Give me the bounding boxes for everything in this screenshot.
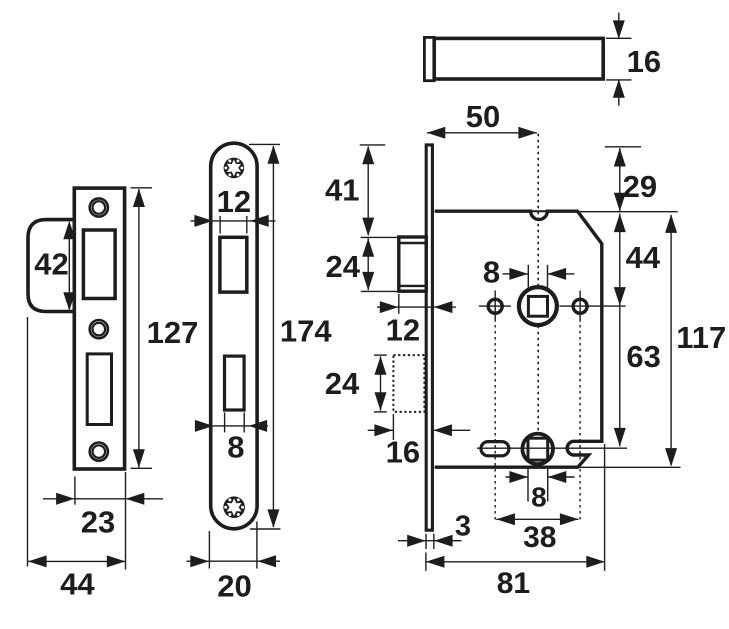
dim 24 latch bottom tick <box>361 290 397 292</box>
left fixing hole <box>488 299 502 313</box>
strike plate outline <box>74 188 124 469</box>
dim 12 latch arrow left <box>434 301 453 313</box>
dim 44 right extension <box>125 472 127 570</box>
hole centerline horizontal left <box>479 305 511 307</box>
dim 23 arrow right <box>56 493 75 505</box>
svg-text:16: 16 <box>386 434 420 469</box>
dim 3 tick right <box>433 534 435 549</box>
dim 16 bottom arrow right <box>374 424 393 436</box>
right hole centerline dotted <box>579 325 581 520</box>
dim 8 bottom arrow left <box>548 471 567 483</box>
dim 24 pocket bottom tick <box>374 411 387 413</box>
dim 8 arrow left <box>249 420 268 432</box>
bolt top-view body <box>434 38 603 79</box>
svg-text:50: 50 <box>466 99 500 134</box>
dim 24 latch line <box>367 238 369 290</box>
hole centerline horizontal right <box>560 305 626 307</box>
dim 8 spindle leader right <box>548 273 575 275</box>
dim 50 arrow left <box>427 127 446 139</box>
dim 127 top tick <box>131 187 153 189</box>
dim 127 arrow down <box>133 449 145 468</box>
dim 20 left extension <box>208 531 210 569</box>
dim 29 arrow up <box>614 148 626 167</box>
dim 38 arrow left <box>496 513 515 525</box>
strike plate bottom screw hole <box>90 443 108 461</box>
dim 23 arrow left <box>126 493 145 505</box>
svg-text:44: 44 <box>60 567 95 602</box>
dim 16 bottom arrow left <box>433 424 452 436</box>
dim 117 line <box>670 215 672 465</box>
dim 8 spindle tick left <box>527 265 529 291</box>
dim 16 top line lower <box>618 80 620 106</box>
case top extension line <box>580 211 678 213</box>
dim 3 arrow left <box>434 535 453 547</box>
dim 44 arrow right <box>107 555 126 567</box>
spindle follower circle <box>519 287 557 325</box>
strike plate lip (latch pocket) <box>28 220 73 312</box>
dim 44 line <box>28 560 125 562</box>
dim 8 spindle arrow right <box>509 268 528 280</box>
dim 42 line <box>68 222 70 310</box>
svg-text:41: 41 <box>325 173 359 208</box>
dim 174 line <box>272 146 274 527</box>
dim 23 line <box>43 498 163 500</box>
dim 63 line <box>619 307 621 447</box>
dim 41 arrow up <box>362 146 374 165</box>
dim 8 tick right <box>243 412 245 432</box>
strike plate latch cutout <box>83 230 115 299</box>
dim 24 pocket top tick <box>374 354 387 356</box>
dim 20 line <box>187 560 281 562</box>
latch bolt side view <box>399 237 426 291</box>
dim 16 top arrow down <box>613 20 625 39</box>
dim 16 bottom extension <box>392 414 394 440</box>
dim 12 tick right <box>246 216 248 234</box>
dim 12 latch extension <box>398 294 400 314</box>
svg-text:20: 20 <box>217 569 251 604</box>
dim 8 spindle leader left <box>503 273 528 275</box>
dim 174 bottom tick <box>250 528 281 530</box>
dim 24 latch arrow up <box>362 238 374 257</box>
dim 24 pocket line <box>380 356 382 410</box>
faceplate bottom torx screw <box>223 496 245 518</box>
wc follower circle <box>522 434 553 465</box>
oval slot left <box>481 442 509 456</box>
bottom centerline horizontal <box>477 447 627 449</box>
svg-text:81: 81 <box>497 567 530 600</box>
svg-text:44: 44 <box>626 240 661 275</box>
dim 42 arrow down <box>63 292 75 311</box>
dim 44 case line <box>619 214 621 306</box>
dim 44 case arrow up <box>614 214 626 233</box>
dim 12 arrow right <box>194 215 213 227</box>
dim 29 line <box>619 148 621 211</box>
dim 8 bottom tick left <box>527 468 529 502</box>
svg-text:174: 174 <box>280 314 332 349</box>
dotted deadbolt pocket <box>393 355 424 412</box>
dim 63 arrow down <box>614 428 626 447</box>
dim 8 line <box>201 425 268 427</box>
svg-text:29: 29 <box>623 169 657 204</box>
faceplate deadbolt cutout <box>225 356 245 410</box>
svg-text:24: 24 <box>326 249 361 284</box>
svg-text:8: 8 <box>483 255 500 290</box>
dim 81 right extension <box>604 444 606 571</box>
dim 12 tick left <box>219 216 221 234</box>
dim 8 arrow right <box>195 420 214 432</box>
svg-text:117: 117 <box>676 320 726 355</box>
strike plate middle screw hole <box>90 320 108 338</box>
dim 24 latch arrow down <box>362 272 374 291</box>
dim 38 arrow right <box>560 513 579 525</box>
dim 24 pocket arrow down <box>375 392 387 411</box>
latch bolt inner line top <box>399 242 426 244</box>
svg-text:38: 38 <box>523 521 556 554</box>
dim 8 tick left <box>224 412 226 432</box>
svg-text:16: 16 <box>627 44 661 79</box>
dim 29 top tick <box>605 146 641 148</box>
lock case outline <box>435 211 602 467</box>
dim 127 line <box>138 189 140 468</box>
dim 3 leader <box>398 540 462 542</box>
dim 42 arrow up <box>63 221 75 240</box>
dim 20 right extension <box>256 522 258 569</box>
dim 16 top tick upper <box>606 37 632 39</box>
bolt top-view thin plate <box>424 37 434 80</box>
dim 117 arrow down <box>665 448 677 467</box>
dim 174 arrow down <box>267 509 279 528</box>
dim 12 arrow left <box>250 215 269 227</box>
dim 81 arrow left <box>426 556 445 568</box>
right fixing hole <box>573 299 587 313</box>
dim 16 bottom leader left <box>368 429 393 431</box>
strike plate top screw hole <box>90 198 108 216</box>
dim 8 bottom leader right <box>548 476 575 478</box>
dim 24 pocket arrow up <box>375 356 387 375</box>
dim 16 top arrow up <box>613 79 625 98</box>
dim 44 case arrow down <box>614 287 626 306</box>
dim 174 arrow up <box>267 145 279 164</box>
dim 50 line <box>427 132 537 134</box>
dim 41 line <box>367 147 369 236</box>
svg-text:42: 42 <box>34 247 68 282</box>
latch top extension line <box>361 236 397 238</box>
dim 8 bottom leader left <box>506 476 528 478</box>
svg-text:3: 3 <box>455 510 471 542</box>
strike plate deadbolt cutout <box>87 354 111 425</box>
spindle square hole <box>528 296 547 316</box>
dim 174 top tick <box>249 143 280 145</box>
dim 16 bottom leader right <box>433 429 470 431</box>
dim 23 left extension <box>74 477 76 505</box>
dim 8 spindle arrow left <box>548 268 567 280</box>
dim 3 arrow right <box>407 535 426 547</box>
spindle axis (dotted) <box>537 134 539 462</box>
dim 12 line <box>191 220 276 222</box>
lock faceplate side view <box>426 145 432 530</box>
dim 44 arrow left <box>28 555 46 567</box>
case top line across notch <box>529 210 549 212</box>
svg-text:12: 12 <box>217 184 251 219</box>
case bottom extension line <box>579 466 681 468</box>
dim 8 bottom tick right <box>547 468 549 502</box>
svg-text:8: 8 <box>531 481 547 512</box>
svg-text:8: 8 <box>227 430 244 465</box>
latch bolt inner line bottom <box>399 285 426 287</box>
dim 16 top line upper <box>618 13 620 39</box>
dim 44 left extension <box>27 317 29 567</box>
faceplate outline (stadium) <box>211 143 257 529</box>
right hole centerline vertical <box>579 291 581 322</box>
dim 127 bottom tick <box>131 467 153 469</box>
faceplate top torx screw <box>224 158 245 179</box>
dim 41 top tick <box>360 144 386 146</box>
dim 117 arrow up <box>665 214 677 233</box>
svg-text:23: 23 <box>81 505 115 540</box>
dim 29 arrow down <box>614 193 626 212</box>
dim 12 latch arrow right <box>380 301 399 313</box>
svg-text:24: 24 <box>325 366 360 401</box>
left hole centerline dotted <box>494 325 496 520</box>
left hole centerline vertical <box>494 291 496 322</box>
svg-text:127: 127 <box>147 315 199 350</box>
faceplate latch cutout <box>220 237 247 292</box>
dim 8 spindle tick right <box>547 265 549 291</box>
wc follower square <box>528 438 548 460</box>
dim 3 tick left <box>425 534 427 549</box>
svg-text:63: 63 <box>626 339 660 374</box>
dim 12 latch line <box>377 306 456 308</box>
dim 50 arrow right <box>518 127 537 139</box>
dim 81 left extension <box>425 553 427 571</box>
dim 16 top tick lower <box>606 79 632 81</box>
dim 81 line <box>426 561 605 563</box>
dim 127 arrow up <box>133 189 145 208</box>
dim 20 arrow left <box>258 555 277 567</box>
dim 41 arrow down <box>362 218 374 237</box>
dim 81 arrow right <box>586 556 605 568</box>
dim 38 line <box>496 518 578 520</box>
dim 20 arrow right <box>190 555 209 567</box>
svg-text:12: 12 <box>386 313 420 348</box>
dim 8 bottom arrow right <box>509 471 528 483</box>
